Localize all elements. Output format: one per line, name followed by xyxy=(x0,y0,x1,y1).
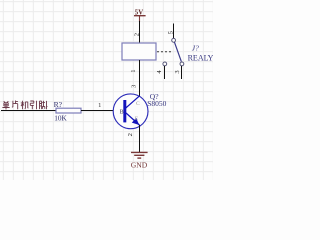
relay coil K rectangle xyxy=(122,43,156,60)
emitter arrowhead xyxy=(132,118,139,125)
transistor Q? S8050 circle xyxy=(113,94,148,129)
wire resistor to transistor base xyxy=(81,110,124,112)
power symbol 5V xyxy=(134,9,146,22)
svg-text:B: B xyxy=(120,109,124,115)
contact circle pin 4 xyxy=(163,62,167,66)
resistor R? body xyxy=(56,108,81,113)
transistor base bar xyxy=(123,100,126,122)
transistor emitter stroke xyxy=(126,113,140,125)
contact blade xyxy=(174,42,181,61)
contact circle pin 5 xyxy=(172,38,176,42)
dashed link coil to contact xyxy=(157,51,172,53)
relay contact pin 5 wire xyxy=(173,24,175,39)
引 xyxy=(30,101,36,110)
svg-text:S8050: S8050 xyxy=(147,99,166,108)
wire 5V to relay coil pin 2 xyxy=(139,21,141,44)
svg-text:1: 1 xyxy=(98,102,101,109)
svg-text:R?: R? xyxy=(54,100,63,109)
svg-text:J?: J? xyxy=(192,44,199,53)
contact circle pin 3 xyxy=(180,62,184,66)
svg-text:10K: 10K xyxy=(54,114,67,123)
svg-text:2: 2 xyxy=(134,33,141,36)
svg-text:2: 2 xyxy=(127,133,134,136)
ground symbol xyxy=(131,152,148,158)
svg-text:GND: GND xyxy=(131,161,148,170)
svg-text:REALY: REALY xyxy=(188,54,213,63)
wire net label to resistor xyxy=(1,110,56,112)
脚 xyxy=(40,101,48,110)
transistor collector stroke xyxy=(126,96,140,108)
svg-text:1: 1 xyxy=(130,70,137,73)
片 xyxy=(12,101,18,110)
relay contact pin 4 wire xyxy=(164,66,166,79)
relay contact pin 3 wire xyxy=(181,66,183,79)
wire emitter to ground xyxy=(139,125,141,152)
机 xyxy=(21,101,29,110)
net label 单片机引脚 (drawn strokes) xyxy=(2,101,47,110)
wire relay coil pin 1 to transistor collector xyxy=(139,60,141,96)
单 xyxy=(2,101,9,109)
svg-text:C: C xyxy=(136,101,140,107)
